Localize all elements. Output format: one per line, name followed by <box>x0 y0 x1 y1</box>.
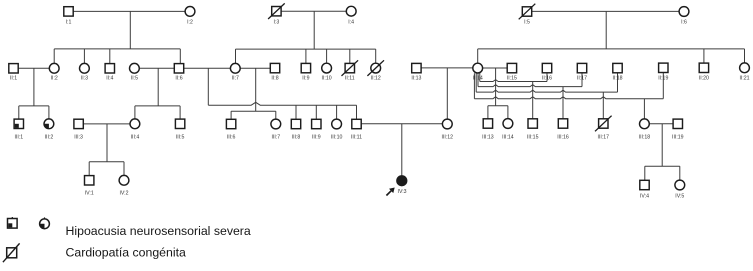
label II:3 <box>81 75 88 81</box>
individual III:13 (male square) <box>483 119 492 128</box>
wire sibship line IV:1 IV:2 <box>89 161 124 163</box>
wire drop to III:14 <box>507 106 509 119</box>
individual II:20 (male square) <box>699 63 708 72</box>
wire drop to III:6 <box>230 111 232 119</box>
svg-text:II:21: II:21 <box>739 75 749 81</box>
svg-text:II:13: II:13 <box>411 75 421 81</box>
wire marriage bracket II:14-II:19 vertical <box>473 73 475 99</box>
label I:1 <box>66 19 72 25</box>
svg-text:III:18: III:18 <box>639 134 651 140</box>
label II:13 <box>411 75 421 81</box>
label III:8 <box>292 134 301 140</box>
wire drop to II:7 <box>235 49 237 63</box>
svg-text:II:5: II:5 <box>131 75 138 81</box>
svg-text:Cardiopatía congénita: Cardiopatía congénita <box>66 245 186 259</box>
individual II:1 (male square) <box>9 64 18 73</box>
label III:11 <box>351 134 362 140</box>
wire drop to III:10 <box>336 105 338 119</box>
individual IV:3 (female circle) affected <box>397 176 407 186</box>
wire sibship line III:1 III:2 <box>19 105 49 107</box>
svg-text:III:14: III:14 <box>502 134 514 140</box>
wire descent II:1-II:2 to sibship <box>33 68 35 106</box>
legend text Hipoacusia neurosensorial severa <box>66 224 251 238</box>
svg-text:II:8: II:8 <box>271 75 278 81</box>
wire descent II:7-II:8 to sibship crossing under III:8-III:11 line <box>255 68 257 111</box>
svg-text:II:16: II:16 <box>542 75 552 81</box>
wire drop to II:21 <box>744 49 746 63</box>
legend icon affected female circle with lower-left quadrant fill <box>44 217 46 219</box>
wire marriage bracket II:14-II:16 vertical <box>479 73 481 82</box>
wire drop to III:11 <box>356 105 358 119</box>
wire marriage line II:14-II:15 <box>478 67 512 69</box>
wire descent II:5-II:6 to sibship <box>157 68 159 106</box>
individual I:2 (female circle) <box>185 6 195 16</box>
wire marriage bracket II:14-II:17 horizontal with hops <box>478 85 582 87</box>
wire sibship line children of I:5-I:6 <box>478 48 745 50</box>
label I:5 <box>524 19 530 25</box>
individual IV:5 (female circle) <box>675 180 685 190</box>
wire descent III:11-III:12 to proband IV:3 <box>401 124 403 176</box>
svg-text:III:13: III:13 <box>482 134 494 140</box>
svg-text:II:17: II:17 <box>577 75 587 81</box>
label II:19 <box>658 75 668 81</box>
wire marriage line II:1-II:2 <box>14 67 55 69</box>
individual II:14 (female circle) <box>473 63 483 73</box>
wire marriage line III:18-III:19 <box>644 123 677 125</box>
label II:10 <box>322 75 332 81</box>
svg-text:II:18: II:18 <box>612 75 622 81</box>
svg-text:IV:3: IV:3 <box>398 189 407 195</box>
wire sibship line children of I:3-I:4 <box>236 48 376 50</box>
svg-text:I:5: I:5 <box>524 19 530 25</box>
svg-text:II:6: II:6 <box>175 75 182 81</box>
label III:19 <box>672 134 684 140</box>
wire sibship line III:8-III:11 with hop over crossing <box>208 102 356 105</box>
individual I:3 (male square) deceased slash <box>272 7 281 16</box>
label IV:2 <box>119 191 128 197</box>
svg-text:II:2: II:2 <box>51 75 58 81</box>
svg-text:IV:4: IV:4 <box>640 194 649 200</box>
label III:15 <box>527 134 539 140</box>
wire drop to IV:5 <box>679 166 681 180</box>
individual II:9 (male square) <box>301 63 310 72</box>
svg-text:III:11: III:11 <box>351 134 362 140</box>
individual II:11 (male square) deceased slash <box>345 63 354 72</box>
wire drop to II:14 <box>477 49 479 64</box>
individual II:15 (male square) <box>507 63 516 72</box>
label II:7 <box>232 75 239 81</box>
wire drop to III:5 <box>179 106 181 119</box>
individual III:7 (female circle) <box>271 119 281 129</box>
svg-text:I:1: I:1 <box>66 19 72 25</box>
legend icon affected male square with lower-left quadrant fill <box>11 217 13 219</box>
individual II:19 (male square) <box>659 63 668 72</box>
individual II:7 (female circle) <box>230 63 240 73</box>
wire drop to III:8 <box>295 105 297 119</box>
label II:16 <box>542 75 552 81</box>
svg-text:III:2: III:2 <box>45 134 54 140</box>
label IV:1 <box>85 191 94 197</box>
label II:14 <box>473 75 483 81</box>
individual II:2 (female circle) <box>49 63 59 73</box>
wire drop to II:2 <box>53 49 55 64</box>
label II:12 <box>371 75 381 81</box>
individual III:6 (male square) <box>226 119 235 128</box>
wire marriage bracket II:14-II:17 up to II:17 <box>581 73 583 87</box>
individual IV:4 (male square) <box>640 180 649 189</box>
wire descent II:14-II:18 to III:17 <box>602 92 604 119</box>
svg-text:III:6: III:6 <box>227 134 236 140</box>
label I:4 <box>348 19 354 25</box>
label II:6 <box>175 75 182 81</box>
wire drop to III:13 <box>487 106 489 119</box>
wire marriage line II:7-II:8 <box>235 67 275 69</box>
svg-text:I:3: I:3 <box>274 19 280 25</box>
individual II:5 (female circle) <box>130 63 140 73</box>
wire marriage bracket II:14-II:16 up to II:16 <box>546 73 548 82</box>
label II:5 <box>131 75 138 81</box>
wire marriage line II:13-II:14 <box>416 67 477 69</box>
svg-text:III:7: III:7 <box>271 134 280 140</box>
wire descent I:5-I:6 couple to sibship <box>605 11 607 49</box>
individual III:15 (male square) <box>528 119 537 128</box>
label II:20 <box>699 75 709 81</box>
label IV:3 <box>398 189 407 195</box>
wire descent III:18-III:19 to sibship <box>661 124 663 167</box>
wire drop to III:2 <box>48 106 50 119</box>
wire marriage line II:5-II:6 <box>134 67 179 69</box>
individual II:16 (male square) <box>542 63 551 72</box>
wire marriage bracket II:14-II:19 horizontal with hops <box>474 97 663 99</box>
individual II:3 (female circle) <box>80 63 90 73</box>
wire descent I:1-I:2 couple to sibship <box>129 11 131 49</box>
wire sibship line III:6 III:7 <box>231 110 276 112</box>
wire descent II:14-II:16 to III:15 <box>532 82 534 120</box>
individual III:16 (male square) <box>558 119 567 128</box>
wire drop to II:6 <box>179 49 181 64</box>
individual III:14 (female circle) <box>503 119 513 129</box>
individual III:1 (male square) affected lower-left quadrant <box>14 119 23 128</box>
svg-text:III:15: III:15 <box>527 134 539 140</box>
label II:9 <box>302 75 309 81</box>
svg-text:III:16: III:16 <box>557 134 569 140</box>
wire descent I:3-I:4 couple to sibship <box>313 11 315 49</box>
label I:2 <box>187 19 193 25</box>
wire drop to III:1 <box>18 106 20 119</box>
svg-text:II:4: II:4 <box>106 75 113 81</box>
label III:12 <box>442 134 454 140</box>
label IV:4 <box>640 194 649 200</box>
svg-text:Hipoacusia neurosensorial seve: Hipoacusia neurosensorial severa <box>66 224 251 238</box>
svg-text:III:10: III:10 <box>331 134 343 140</box>
individual I:4 (female circle) <box>346 6 356 16</box>
individual II:4 (male square) <box>105 64 114 73</box>
individual IV:1 (male square) <box>85 176 94 185</box>
individual III:19 (male square) <box>673 119 682 128</box>
label III:4 <box>131 134 140 140</box>
svg-text:III:12: III:12 <box>442 134 454 140</box>
individual III:4 (female circle) <box>130 119 140 129</box>
label I:6 <box>681 19 687 25</box>
svg-text:I:2: I:2 <box>187 19 193 25</box>
label II:15 <box>507 75 517 81</box>
label II:18 <box>612 75 622 81</box>
wire drop to III:9 <box>315 105 317 119</box>
legend text Cardiopatia congenita <box>66 245 186 259</box>
label III:10 <box>331 134 343 140</box>
proband arrow pointing to IV:3 <box>386 191 391 196</box>
svg-text:II:19: II:19 <box>658 75 668 81</box>
wire marriage bracket II:14-II:18 vertical <box>475 73 477 92</box>
label II:1 <box>10 75 17 81</box>
label III:1 <box>14 134 23 140</box>
individual I:1 (male square) <box>64 7 73 16</box>
svg-text:III:3: III:3 <box>74 134 83 140</box>
wire marriage bracket II:14-II:17 vertical <box>477 73 479 87</box>
individual III:8 (male square) <box>291 119 300 128</box>
svg-text:III:8: III:8 <box>292 134 301 140</box>
wire marriage bracket II:14-II:18 horizontal with hops <box>476 90 617 92</box>
svg-text:III:19: III:19 <box>672 134 684 140</box>
individual I:5 (male square) deceased slash <box>522 7 531 16</box>
wire marriage bracket II:14-II:16 horizontal with hops <box>480 80 547 82</box>
label II:21 <box>739 75 749 81</box>
wire drop to III:7 <box>275 111 277 119</box>
individual II:17 (male square) <box>577 63 586 72</box>
wire drop to IV:4 <box>644 166 646 180</box>
wire marriage bracket II:14-II:18 up to II:18 <box>617 73 619 92</box>
wire marriage line I:3-I:4 <box>276 10 351 12</box>
svg-text:II:1: II:1 <box>10 75 17 81</box>
individual III:9 (male square) <box>312 119 321 128</box>
svg-text:II:14: II:14 <box>473 75 483 81</box>
label III:7 <box>271 134 280 140</box>
label III:17 <box>598 134 610 140</box>
label IV:5 <box>675 194 684 200</box>
wire drop to IV:1 <box>88 162 90 176</box>
wire sibship line III:4 III:5 <box>135 105 180 107</box>
individual III:12 (female circle) <box>442 119 452 129</box>
legend icon deceased slashed square <box>7 248 17 258</box>
wire marriage line I:1-I:2 <box>69 10 191 12</box>
wire drop to II:4 <box>109 49 111 64</box>
wire marriage line II:6-II:7 <box>179 67 235 69</box>
svg-text:III:1: III:1 <box>14 134 23 140</box>
individual I:6 (female circle) <box>679 7 689 17</box>
wire sibship line IV:4 IV:5 <box>645 165 680 167</box>
wire descent II:14-II:17 to III:16 <box>562 87 564 119</box>
label III:2 <box>45 134 54 140</box>
label III:6 <box>227 134 236 140</box>
individual IV:2 (female circle) <box>119 175 129 185</box>
wire drop to IV:2 <box>123 162 125 176</box>
label III:16 <box>557 134 569 140</box>
label III:9 <box>312 134 321 140</box>
svg-text:II:10: II:10 <box>322 75 332 81</box>
individual II:10 (female circle) <box>322 63 332 73</box>
svg-text:III:9: III:9 <box>312 134 321 140</box>
individual III:18 (female circle) <box>640 119 650 129</box>
individual III:10 (female circle) <box>332 119 342 129</box>
wire descent III:3-III:4 to sibship <box>106 124 108 162</box>
svg-text:II:11: II:11 <box>345 75 355 81</box>
wire drop to II:10 <box>326 49 328 63</box>
individual III:11 (male square) <box>352 119 361 128</box>
wire drop to II:20 <box>703 49 705 63</box>
label I:3 <box>274 19 280 25</box>
individual II:12 (female circle) deceased slash <box>371 63 381 73</box>
individual III:17 (male square) deceased slash <box>599 119 608 128</box>
individual II:6 (male square) <box>174 64 183 73</box>
wire descent II:14-II:19 to III:18 <box>643 99 645 119</box>
svg-text:I:4: I:4 <box>348 19 354 25</box>
label III:13 <box>482 134 494 140</box>
svg-text:II:20: II:20 <box>699 75 709 81</box>
individual II:8 (male square) <box>270 63 279 72</box>
individual III:3 (male square) <box>74 119 83 128</box>
individual II:21 (female circle) <box>740 63 750 73</box>
svg-text:II:15: II:15 <box>507 75 517 81</box>
individual III:2 (female circle) affected <box>44 119 54 129</box>
label II:11 <box>345 75 355 81</box>
svg-text:II:7: II:7 <box>232 75 239 81</box>
wire marriage line III:11-III:12 <box>357 123 448 125</box>
individual II:13 (male square) <box>412 63 421 72</box>
label II:2 <box>51 75 58 81</box>
wire drop to II:11 <box>349 49 351 63</box>
label II:17 <box>577 75 587 81</box>
svg-text:III:4: III:4 <box>131 134 140 140</box>
svg-text:III:5: III:5 <box>176 134 185 140</box>
svg-text:I:6: I:6 <box>681 19 687 25</box>
label III:14 <box>502 134 514 140</box>
svg-text:II:3: II:3 <box>81 75 88 81</box>
individual II:18 (male square) <box>613 63 622 72</box>
wire drop to II:12 <box>375 49 377 63</box>
label III:3 <box>74 134 83 140</box>
svg-text:III:17: III:17 <box>598 134 610 140</box>
wire sibship line children of I:1-I:2 <box>54 48 180 50</box>
wire descent II:14-II:15 to sibship crossing bracket lines <box>495 68 497 106</box>
wire drop to III:4 <box>134 106 136 119</box>
wire sibship line III:13 III:14 <box>488 105 508 107</box>
wire marriage line III:3-III:4 <box>79 123 135 125</box>
individual III:5 (male square) <box>175 119 184 128</box>
wire marriage line I:5-I:6 <box>527 10 684 12</box>
wire drop to II:3 <box>83 49 85 64</box>
label III:18 <box>639 134 651 140</box>
svg-text:IV:2: IV:2 <box>119 191 128 197</box>
wire descent II:13-II:14 to III:12 <box>446 68 448 119</box>
wire descent II:6-II:7 to sibship of III:8-III:11 <box>207 68 209 105</box>
label III:5 <box>176 134 185 140</box>
svg-text:IV:1: IV:1 <box>85 191 94 197</box>
label II:4 <box>106 75 113 81</box>
wire marriage bracket II:14-II:19 up to II:19 <box>662 73 664 99</box>
svg-text:IV:5: IV:5 <box>675 194 684 200</box>
svg-text:II:9: II:9 <box>302 75 309 81</box>
svg-text:II:12: II:12 <box>371 75 381 81</box>
label II:8 <box>271 75 278 81</box>
wire drop to II:9 <box>305 49 307 63</box>
